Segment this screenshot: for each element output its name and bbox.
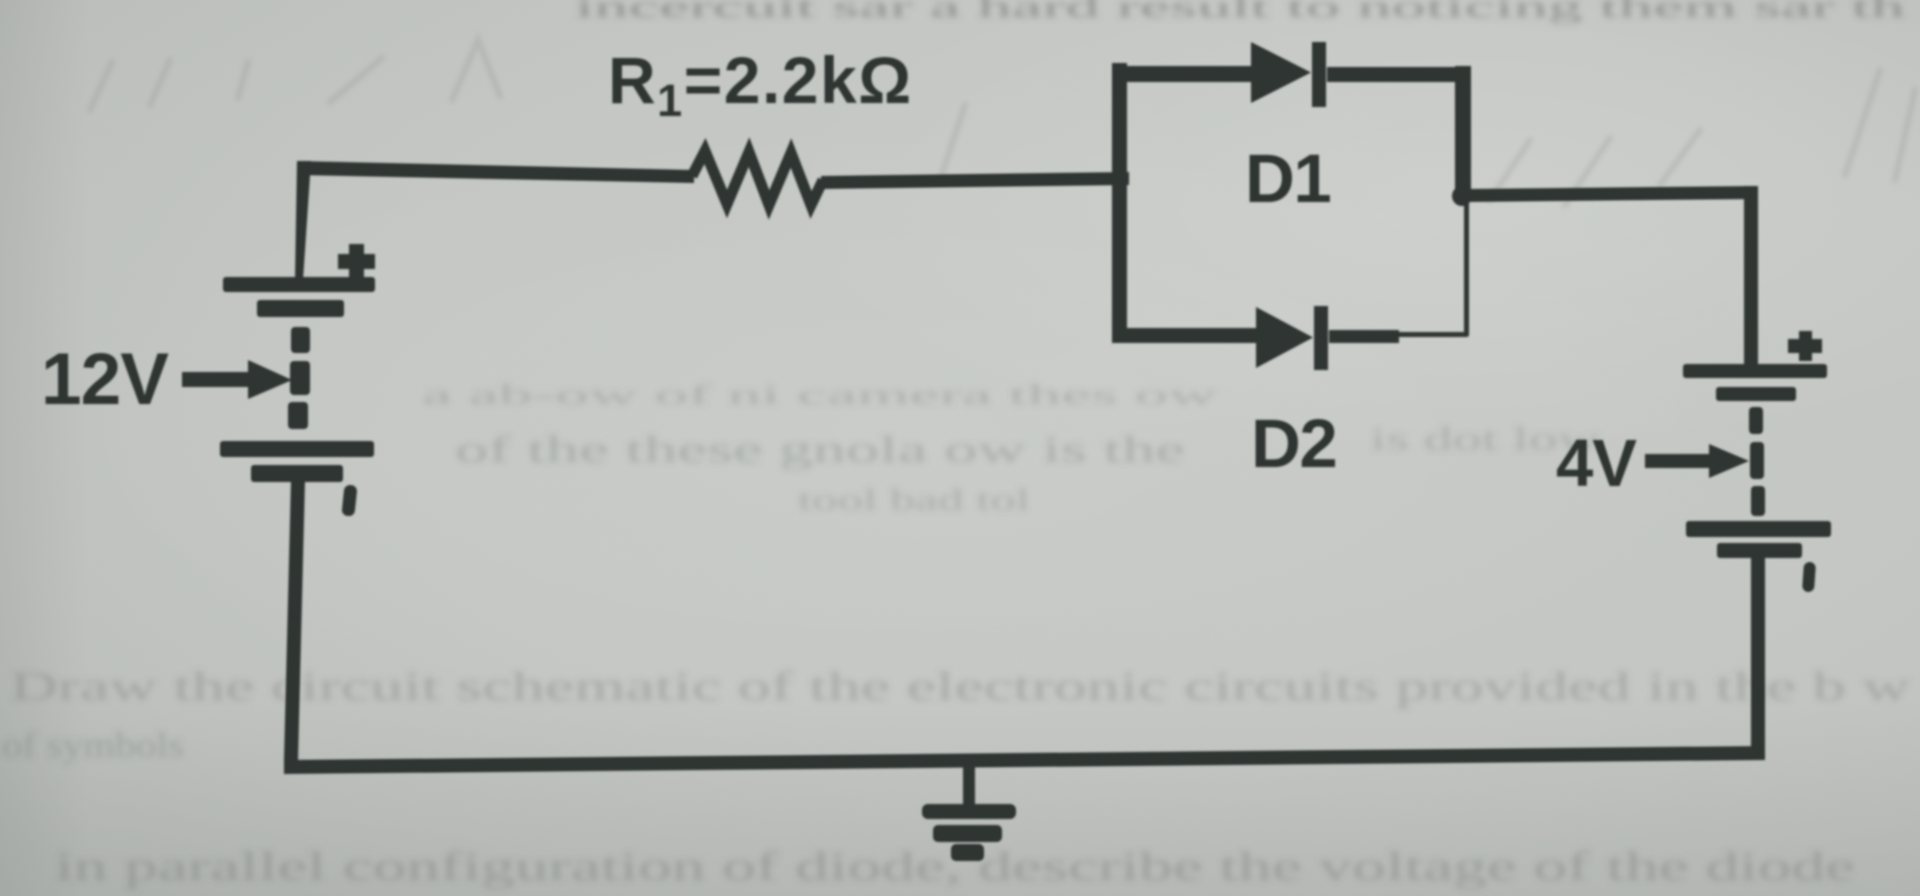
wire right vertical (corner down to 4V battery +) (1744, 186, 1758, 368)
battery B1 minus tick (341, 484, 357, 516)
svg-text:tool bad tol: tool bad tol (798, 482, 1030, 517)
label D2 (1251, 405, 1336, 482)
svg-text:4V: 4V (1556, 426, 1637, 501)
diode D2 (1256, 306, 1328, 370)
wire top branch right (D1 to box right vertical) (1327, 67, 1469, 82)
wire resistor to diode-box left vertical (821, 172, 1129, 189)
wire thin vertical (node down to D2 branch) (1464, 200, 1469, 336)
svg-text:incercuit sar a hard result to: incercuit sar a hard result to noticing … (575, 0, 1906, 24)
wire left vertical lower (battery minus down to bottom-left corner) (284, 480, 305, 760)
battery B2 4V plates and cells (1683, 364, 1831, 558)
arrow 4V pointing to battery (1645, 444, 1749, 478)
wire top branch left (box corner to diode D1) (1112, 66, 1255, 82)
label 12V (41, 339, 169, 420)
ground symbol (922, 804, 1016, 861)
wire right vertical lower (4V battery minus down to bottom-right corner) (1751, 555, 1765, 760)
svg-text:R1=2.2kΩ: R1=2.2kΩ (608, 43, 913, 126)
battery B1 12V plates and cells (220, 277, 375, 482)
ghost handwriting marks (decorative) (90, 40, 1915, 205)
wire output node to right corner (1462, 186, 1757, 202)
wire top horizontal (left corner to resistor R1) (297, 161, 694, 183)
wire diode-box left vertical (1112, 63, 1127, 343)
wire bottom branch right stub (D2 bar to thick end) (1329, 330, 1399, 343)
wire bottom branch left (box corner to diode D2) (1115, 328, 1258, 343)
wire thin horizontal (D2 output to thin vertical) (1396, 332, 1468, 337)
arrow 12V pointing to battery (182, 360, 292, 399)
diode D1 (1251, 42, 1326, 107)
resistor R1 (692, 151, 823, 205)
label 4V (1556, 426, 1637, 501)
battery B1 12V plus sign (338, 244, 375, 279)
node junction dot (1452, 186, 1472, 206)
label R1=2.2kOhm (608, 43, 913, 126)
svg-text:12V: 12V (41, 339, 169, 420)
wire top-left vertical (from top-left corner down to 12V battery +) (295, 161, 311, 280)
wire bottom horizontal (284, 746, 1765, 774)
battery B2 4V plus sign (1788, 331, 1822, 361)
battery B2 minus tick (1802, 562, 1816, 593)
wire diode-box right vertical (top branch down to node) (1455, 66, 1471, 199)
svg-text:D1: D1 (1245, 140, 1330, 217)
label D1 (1245, 140, 1330, 217)
svg-text:of the these gnola ow is the: of the these gnola ow is the (455, 429, 1185, 471)
ground stub wire (963, 755, 975, 812)
svg-text:a ab-ow of ni camera thes ow: a ab-ow of ni camera thes ow (422, 379, 1217, 411)
svg-text:D2: D2 (1251, 405, 1336, 482)
svg-text:of symbols: of symbols (2, 725, 184, 765)
